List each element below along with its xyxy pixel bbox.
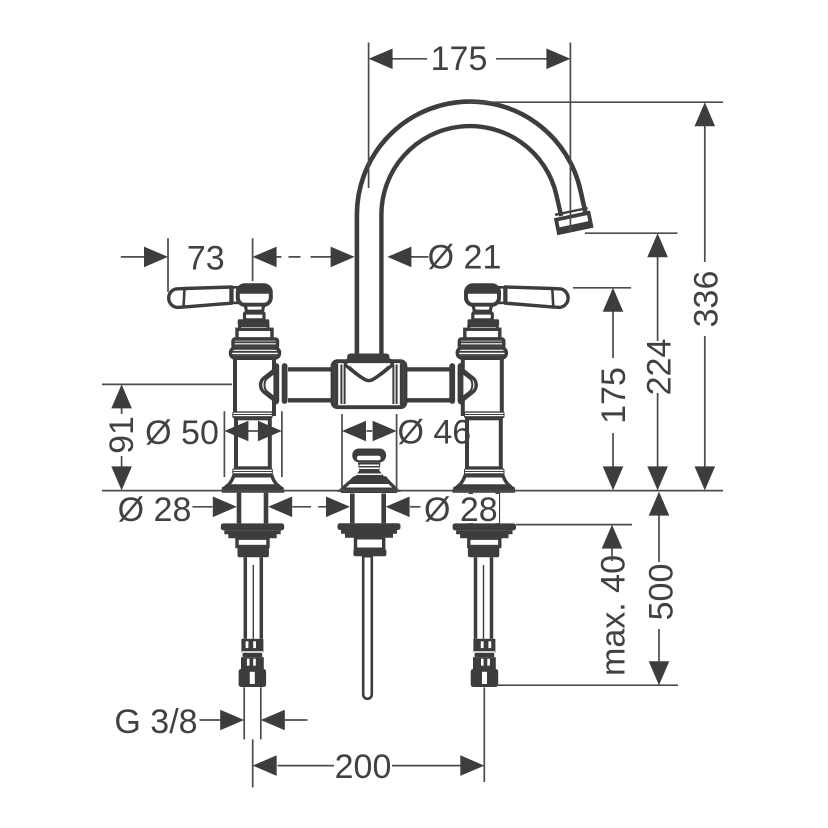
svg-text:500: 500 (643, 564, 681, 621)
deck line (102, 490, 723, 492)
svg-text:G 3/8: G 3/8 (114, 703, 197, 741)
svg-text:Ø 28: Ø 28 (424, 491, 498, 529)
dim diam 28 center (326, 491, 499, 529)
svg-text:Ø 28: Ø 28 (118, 491, 192, 529)
left axis line (252, 739, 254, 787)
dim G 3/8 (114, 703, 307, 741)
svg-text:Ø 21: Ø 21 (428, 239, 502, 277)
dim 91 (102, 384, 232, 490)
tee body (333, 357, 406, 408)
dim diam 50 (145, 411, 282, 477)
dim 175 right (573, 288, 633, 491)
dim 175 top (369, 40, 571, 232)
dim 200 (253, 748, 485, 786)
svg-text:max. 40: max. 40 (595, 555, 633, 676)
svg-text:Ø 46: Ø 46 (398, 414, 472, 452)
popup rod (363, 556, 372, 699)
dim diam 21 (311, 239, 502, 277)
svg-text:73: 73 (187, 240, 225, 278)
right valve column (mirror) (452, 285, 568, 687)
dim 73 (121, 238, 301, 292)
svg-text:224: 224 (641, 339, 679, 396)
dim max 40 (516, 525, 633, 676)
dim diam 28 left (118, 491, 327, 529)
right valve cone (459, 367, 476, 403)
svg-text:175: 175 (595, 367, 633, 424)
left valve column (169, 285, 285, 687)
left shank thread (244, 687, 261, 739)
popup knob (341, 449, 398, 494)
right pipe collar (452, 366, 460, 401)
svg-text:Ø 50: Ø 50 (145, 414, 219, 452)
svg-text:91: 91 (103, 416, 141, 454)
popup underdeck (338, 494, 401, 557)
left pipe collar (276, 366, 284, 401)
dim 500 (495, 492, 681, 686)
bridge pipe (288, 369, 450, 400)
svg-text:175: 175 (431, 40, 488, 78)
spout aerator (555, 208, 591, 233)
tee top collar (347, 354, 389, 362)
spout gooseneck (357, 102, 586, 362)
svg-text:336: 336 (688, 271, 726, 328)
svg-text:200: 200 (335, 748, 392, 786)
dim diam 46 (342, 414, 471, 490)
dim 336 (469, 102, 726, 490)
left valve cone (261, 367, 278, 403)
dim 224 (585, 233, 679, 490)
right axis line (483, 687, 485, 782)
